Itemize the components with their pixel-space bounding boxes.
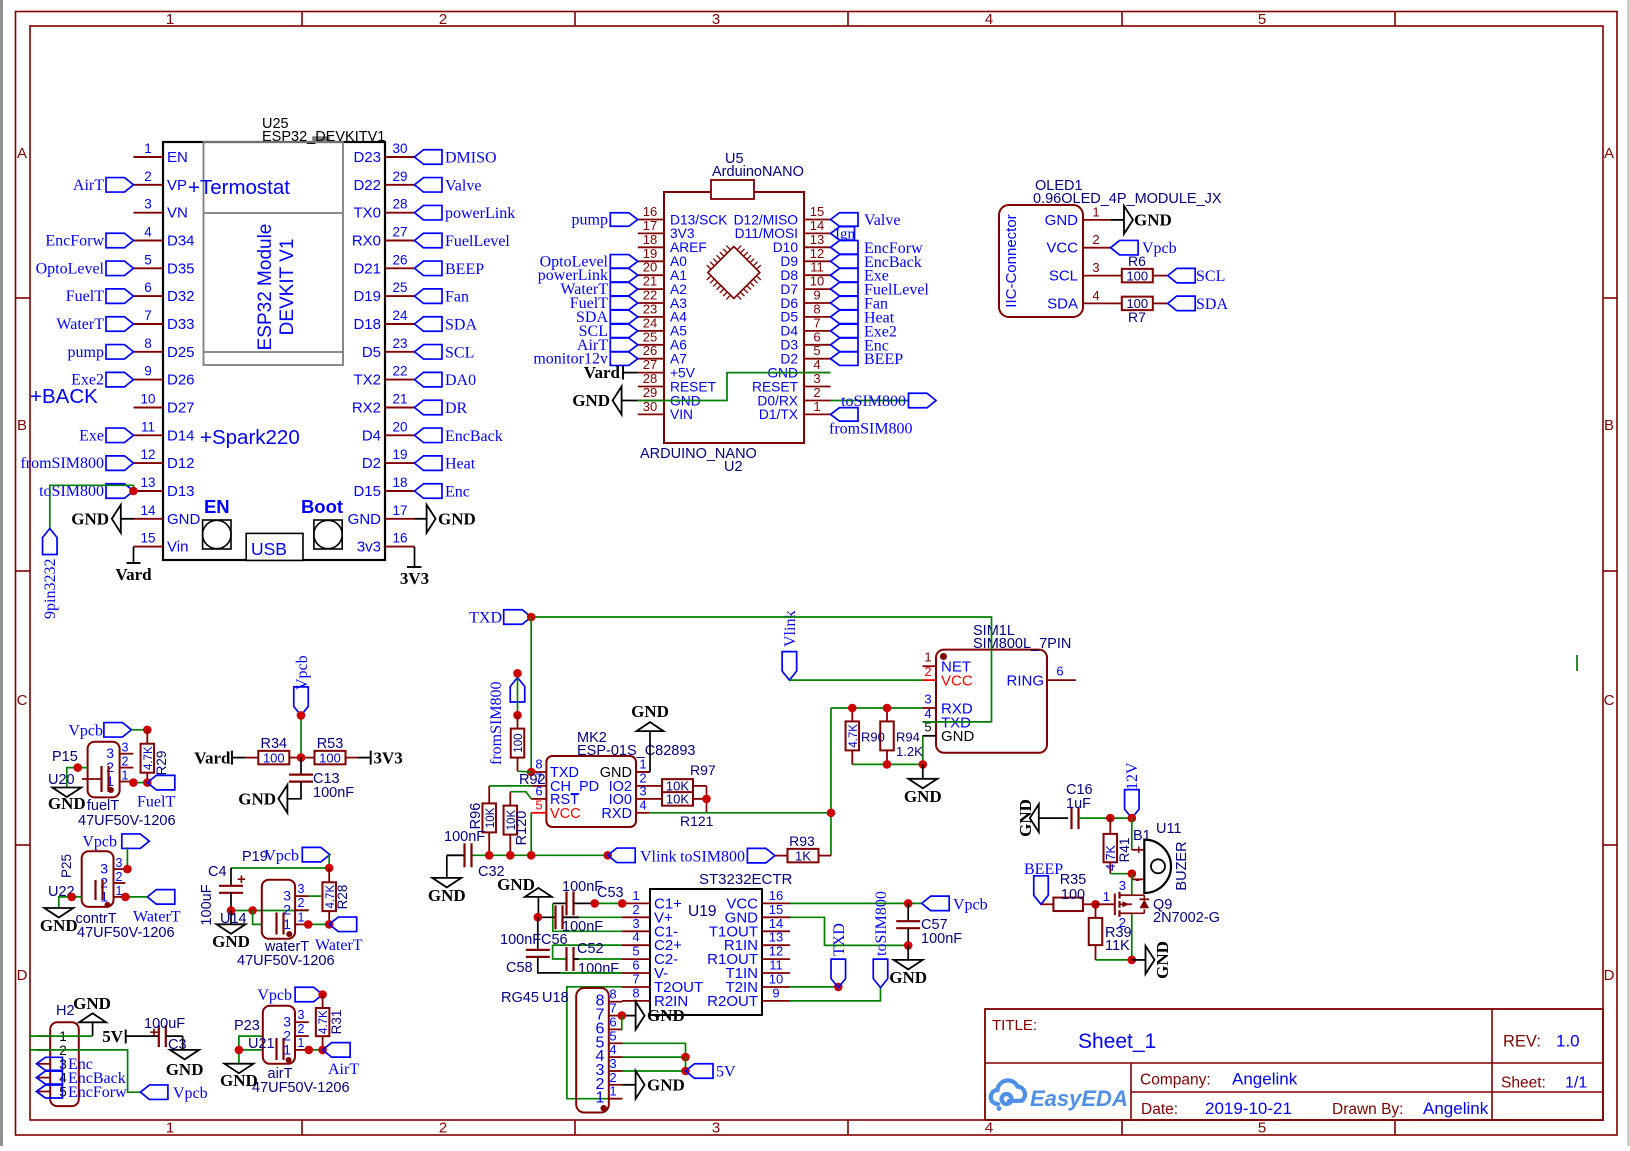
svg-text:Company:: Company:	[1140, 1072, 1211, 1089]
U25 pin 24 D18	[353, 308, 414, 333]
svg-text:WaterT: WaterT	[56, 316, 104, 333]
svg-text:1uF: 1uF	[1066, 796, 1091, 812]
P15 pin 3	[106, 741, 133, 762]
svg-text:5: 5	[609, 1028, 616, 1043]
capacitor C56 100nF	[538, 905, 622, 935]
svg-text:AREF: AREF	[670, 240, 707, 255]
svg-text:DMISO: DMISO	[445, 150, 497, 167]
svg-text:C: C	[1604, 692, 1615, 709]
svg-text:FuelT: FuelT	[137, 794, 175, 811]
junction at MK2 pin8	[527, 768, 536, 777]
svg-text:100: 100	[1061, 887, 1085, 903]
svg-text:A2: A2	[670, 282, 687, 297]
ground at OLED1 pin 1	[1111, 206, 1172, 234]
U19 pin 4 C2+	[622, 930, 682, 955]
svg-text:EncBack: EncBack	[445, 428, 503, 445]
svg-text:GND: GND	[572, 391, 610, 410]
U14 pin 2	[283, 896, 309, 918]
svg-text:BEEP: BEEP	[1024, 861, 1063, 878]
svg-text:D4: D4	[780, 324, 798, 339]
svg-text:Vpcb: Vpcb	[1142, 240, 1177, 257]
svg-text:100nF: 100nF	[444, 829, 485, 845]
connector P19/U14 body	[262, 880, 295, 939]
connector H2 body	[50, 1003, 79, 1106]
svg-text:100: 100	[319, 750, 341, 765]
svg-text:SDA: SDA	[1196, 296, 1228, 313]
U19 pin 14 T1OUT	[709, 916, 790, 941]
net flag EncBack (U5 pin 12)	[831, 254, 922, 271]
U25 pin 12 D12	[134, 447, 195, 472]
svg-text:100uF: 100uF	[144, 1016, 185, 1032]
U5 pin 1 D1/TX	[759, 399, 831, 422]
junction P15 pin1	[129, 778, 138, 787]
net flag pump (U5 pin 16)	[572, 212, 638, 229]
capacitor C57 100nF	[896, 903, 962, 947]
svg-text:16: 16	[392, 531, 407, 546]
svg-text:Fan: Fan	[445, 289, 469, 306]
svg-text:A7: A7	[670, 352, 687, 367]
U5 pin 13 D10	[773, 232, 831, 255]
U5 pin 24 A5	[638, 315, 687, 338]
net flag toSIM800 to R93	[680, 848, 775, 865]
OLED1 pin 4 SDA	[1047, 288, 1110, 313]
svg-text:9pin3232: 9pin3232	[42, 559, 59, 619]
svg-text:D23: D23	[353, 149, 381, 166]
svg-text:1.2K: 1.2K	[896, 744, 923, 759]
net flag AirT (U21)	[323, 1043, 360, 1078]
svg-text:4: 4	[985, 11, 993, 28]
svg-text:SCL: SCL	[1049, 268, 1078, 285]
U19 pin 15 GND	[725, 902, 790, 927]
svg-text:DR: DR	[445, 400, 468, 417]
U19 pin 12 R1OUT	[707, 944, 790, 969]
U25 pin 1 EN	[134, 141, 188, 166]
svg-text:R35: R35	[1060, 872, 1087, 888]
capacitor airT 47UF50V-1206	[252, 1038, 350, 1096]
svg-text:R41: R41	[1117, 838, 1132, 863]
resistor R92 100	[511, 715, 546, 788]
svg-text:22: 22	[643, 288, 657, 303]
net flag monitor12v (U5 pin 26)	[533, 351, 637, 368]
MK2 pin 7 CH_PD	[531, 770, 599, 795]
U25 pin 25 D19	[353, 280, 414, 305]
net flag WaterT (P25)	[133, 890, 181, 926]
U5 pin 5 D2	[780, 343, 830, 366]
U19 pin 6 V-	[622, 958, 668, 983]
svg-text:6: 6	[609, 1014, 616, 1029]
svg-text:RX2: RX2	[352, 400, 381, 417]
svg-text:SDA: SDA	[445, 317, 477, 334]
ground at U5 pin 29	[572, 387, 638, 415]
net flag Valve (U25 pin 29)	[415, 177, 482, 194]
svg-text:3v3: 3v3	[357, 539, 381, 556]
svg-text:WaterT: WaterT	[315, 937, 363, 954]
U19 pin 2 V+	[622, 902, 673, 927]
svg-text:R94: R94	[896, 730, 920, 745]
U5 pin 16 D13/SCK	[638, 204, 729, 227]
resistor R121 10K	[650, 792, 714, 829]
IC U25 ESP32_DEVKITV1 body	[163, 116, 385, 560]
svg-text:1: 1	[609, 1084, 616, 1099]
svg-text:3: 3	[1092, 260, 1099, 275]
svg-text:100: 100	[263, 750, 285, 765]
svg-text:GND: GND	[220, 1071, 258, 1090]
svg-text:GND: GND	[428, 886, 466, 905]
net flag Fan (U5 pin 9)	[831, 296, 889, 313]
U18 pin 7	[596, 1001, 623, 1024]
svg-text:D6: D6	[780, 296, 798, 311]
svg-text:Sheet_1: Sheet_1	[1078, 1030, 1156, 1053]
svg-text:2019-10-21: 2019-10-21	[1205, 1099, 1292, 1118]
svg-text:ESP32_DEVKITV1: ESP32_DEVKITV1	[262, 129, 385, 145]
svg-text:C4: C4	[208, 864, 227, 880]
net flag WaterT (U5 pin 21)	[560, 281, 637, 298]
svg-text:U11: U11	[1156, 821, 1182, 837]
wire U14 pin1 row left	[253, 911, 262, 925]
U25 pin 3 VN	[134, 197, 188, 222]
svg-text:GND: GND	[348, 511, 382, 528]
ground above U19 caps	[497, 875, 552, 917]
U19 pin 13 R1IN	[724, 930, 790, 955]
U19 pin 5 C2-	[622, 944, 678, 969]
svg-text:fuelT: fuelT	[87, 798, 119, 814]
svg-text:Angelink: Angelink	[1423, 1099, 1489, 1118]
net flag 5V (U18)	[686, 1064, 737, 1081]
MK2 pin 8 TXD	[531, 757, 579, 782]
svg-text:4.7K: 4.7K	[1104, 844, 1118, 870]
svg-text:2: 2	[122, 755, 129, 769]
svg-text:3V3: 3V3	[670, 226, 695, 241]
svg-text:D35: D35	[167, 260, 195, 277]
svg-text:D8: D8	[780, 268, 798, 283]
net flag Heat (U5 pin 8)	[831, 309, 895, 326]
net flag FuelT (U25 pin 6)	[66, 288, 134, 305]
svg-text:47UF50V-1206: 47UF50V-1206	[252, 1080, 350, 1096]
svg-text:16: 16	[769, 888, 783, 903]
net flag DMISO (U25 pin 30)	[415, 150, 497, 167]
net flag AirT (U5 pin 25)	[577, 337, 638, 354]
svg-text:100: 100	[513, 734, 525, 753]
svg-text:ArduinoNANO: ArduinoNANO	[712, 164, 804, 180]
svg-text:19: 19	[392, 447, 407, 462]
U19 pin 8 R2IN	[622, 985, 688, 1010]
svg-text:D27: D27	[167, 400, 195, 417]
junction dots fromSIM800	[513, 669, 522, 678]
power flag 5V (C3)	[102, 1027, 158, 1046]
U25 pin 21 RX2	[352, 392, 415, 417]
svg-text:16: 16	[643, 204, 657, 219]
svg-text:D7: D7	[780, 282, 798, 297]
svg-text:Vpcb: Vpcb	[953, 897, 988, 914]
U5 pin 9 D6	[780, 288, 830, 311]
net flag Exe2 (U25 pin 9)	[71, 372, 133, 389]
svg-text:3V3: 3V3	[374, 749, 403, 768]
H2 pin 2	[36, 1043, 66, 1058]
net flag Vpcb (H2)	[140, 1085, 207, 1102]
svg-text:1: 1	[639, 757, 646, 772]
svg-text:A4: A4	[670, 310, 687, 325]
net flag OptoLevel (U25 pin 5)	[36, 260, 134, 277]
svg-text:3: 3	[632, 916, 639, 931]
U18 pin 8	[596, 987, 623, 1010]
svg-text:15: 15	[140, 531, 155, 546]
junction dots Vlink rail	[485, 851, 494, 860]
H2 pin flags Enc/EncBack/EncForw	[36, 1056, 127, 1101]
svg-text:+Spark220: +Spark220	[200, 426, 300, 449]
net flag Vpcb (P23)	[257, 987, 322, 1004]
OLED1 pin 2 VCC	[1046, 232, 1110, 257]
svg-text:5: 5	[1258, 1120, 1266, 1137]
wire P25 pin1 to flag	[125, 896, 147, 898]
resistor R120 10K	[504, 792, 530, 856]
ground at U18 pin7	[636, 1002, 685, 1030]
net flag SCL (U5 pin 24)	[579, 323, 638, 340]
svg-text:3: 3	[144, 197, 152, 212]
U25 pin 22 TX2	[353, 364, 414, 389]
net flag FuelLevel (U5 pin 10)	[831, 282, 930, 299]
svg-text:U18: U18	[542, 990, 569, 1006]
svg-text:D11/MOSI: D11/MOSI	[735, 226, 798, 241]
svg-text:4.7K: 4.7K	[848, 724, 860, 748]
svg-text:EasyEDA: EasyEDA	[1030, 1086, 1128, 1111]
capacitor C32 100nF	[444, 829, 505, 880]
SIM1L pin 3 RXD	[923, 692, 973, 718]
ground at U21	[220, 1064, 258, 1090]
svg-text:C58: C58	[506, 960, 533, 976]
H2 pin 4	[36, 1071, 67, 1086]
junction at GND rail / C56	[534, 913, 543, 922]
net flag toSIM800 (U19 R2OUT)	[873, 891, 890, 988]
svg-text:GND: GND	[212, 932, 250, 951]
net flag Enc (U5 pin 6)	[831, 337, 889, 354]
MK2 pin 3 IO0	[609, 783, 650, 808]
svg-text:VCC: VCC	[941, 673, 973, 690]
net flag Vpcb (P25)	[82, 834, 149, 851]
svg-text:FuelT: FuelT	[66, 288, 104, 305]
U25 pin 2 VP	[134, 169, 188, 194]
U5 pin 23 A4	[638, 301, 687, 324]
IC U5 ArduinoNANO body	[640, 151, 804, 475]
svg-text:47UF50V-1206: 47UF50V-1206	[237, 953, 335, 969]
net flag Vlink (MK2)	[608, 848, 677, 865]
capacitor C4 100uF	[199, 864, 246, 926]
wire MK2 VCC down to Vlink rail	[530, 813, 532, 856]
svg-text:4: 4	[144, 225, 152, 240]
svg-text:8: 8	[609, 987, 616, 1002]
svg-text:D: D	[17, 967, 28, 984]
junction VCC/C57	[904, 899, 913, 908]
svg-text:R7: R7	[1128, 309, 1146, 325]
U25 pin 6 D32	[134, 280, 195, 305]
wire U21 pin1 to AirT	[309, 1049, 323, 1051]
capacitor contrT 47UF50V-1206 (U22)	[75, 880, 174, 941]
resistor R97 10K	[650, 762, 716, 794]
capacitor C52 100nF	[553, 941, 622, 977]
capacitor C16 1uF	[1066, 782, 1093, 829]
wire U21 left rail	[239, 1036, 262, 1050]
svg-text:2: 2	[298, 1022, 305, 1036]
MK2 pin 4 RXD	[601, 797, 649, 822]
svg-text:R29: R29	[154, 751, 169, 776]
P25 pin 2	[100, 870, 125, 891]
svg-text:10K: 10K	[485, 807, 497, 828]
svg-text:1.0: 1.0	[1556, 1032, 1580, 1051]
net flag TXD (left)	[469, 610, 531, 627]
U19 pin 9 R2OUT	[707, 985, 790, 1010]
net flag DR (U25 pin 21)	[415, 400, 468, 417]
svg-text:100: 100	[1126, 268, 1148, 283]
IC MK2 ESP-01S body	[546, 730, 695, 827]
wire SIM1L pin5 to GND	[922, 736, 924, 765]
wire MK2 RXD to SIM RXD net	[650, 812, 831, 814]
capacitor C58 100nF	[500, 917, 622, 976]
wire R39 to GND rail	[1096, 959, 1132, 961]
wire buzzer + pin	[1131, 818, 1133, 850]
svg-text:Vpcb: Vpcb	[68, 722, 103, 739]
svg-text:P19: P19	[242, 849, 268, 865]
svg-text:ESP32 Module: ESP32 Module	[255, 224, 276, 351]
svg-text:C: C	[17, 692, 28, 709]
MK2 pin 1 GND	[600, 757, 650, 782]
junction at TXD flag	[527, 613, 536, 622]
svg-text:RXD: RXD	[601, 806, 632, 822]
svg-text:1: 1	[632, 888, 639, 903]
buzzer U11 BUZER	[1144, 821, 1190, 893]
SIM1L pin 5 GND	[923, 720, 975, 746]
junction 5V node a	[681, 1053, 690, 1062]
svg-text:GND: GND	[889, 968, 927, 987]
svg-text:RX0: RX0	[352, 233, 381, 250]
svg-text:TITLE:: TITLE:	[992, 1017, 1037, 1034]
connector U18 RG45 body	[501, 988, 609, 1113]
net flag EncBack (U25 pin 20)	[415, 428, 503, 445]
net flag Valve (U5 pin 15)	[831, 212, 901, 229]
svg-text:Vpcb: Vpcb	[294, 655, 311, 690]
net flag fromSIM800 (U25 pin 12)	[20, 455, 133, 472]
svg-text:30: 30	[392, 141, 407, 156]
wire fromSIM800 stem	[517, 673, 519, 715]
svg-text:D5: D5	[362, 344, 381, 361]
U5 pin 8 D5	[780, 301, 830, 324]
svg-text:3: 3	[298, 882, 305, 896]
svg-text:27: 27	[643, 357, 657, 372]
svg-text:B: B	[1604, 417, 1614, 434]
capacitor waterT 47UF50V-1206	[237, 913, 335, 970]
svg-text:D12: D12	[167, 455, 195, 472]
svg-text:4: 4	[639, 797, 646, 812]
junction P25 pin3	[123, 865, 132, 874]
net flag Vlink (SIM1L VCC)	[782, 611, 799, 681]
resistor R28 4.7K	[322, 868, 350, 924]
svg-text:D13: D13	[167, 483, 195, 500]
svg-text:VN: VN	[167, 205, 188, 222]
svg-text:D15: D15	[353, 483, 381, 500]
wire U14 pin3 to R28	[309, 895, 321, 897]
net flag pump (U25 pin 8)	[68, 344, 134, 361]
svg-text:A: A	[1604, 145, 1614, 162]
U25 pin 20 D4	[362, 419, 415, 444]
wire P15 pin1 row	[133, 782, 147, 784]
junction U14 pin1	[304, 920, 313, 929]
svg-text:REV:: REV:	[1503, 1033, 1541, 1051]
svg-text:toSIM800: toSIM800	[873, 891, 890, 956]
wire U21 pin2 row left to GND	[239, 1050, 262, 1063]
svg-text:1: 1	[166, 11, 174, 28]
MK2 pin 6 RST	[531, 783, 579, 808]
svg-text:25: 25	[643, 329, 657, 344]
svg-text:6: 6	[1056, 664, 1063, 679]
junction at Vpcb flag	[297, 711, 306, 720]
net flag DA0 (U25 pin 22)	[415, 372, 477, 389]
U5 pin 25 A6	[638, 329, 687, 352]
U5 pin 19 A0	[638, 246, 687, 269]
svg-text:18: 18	[392, 475, 407, 490]
svg-text:D4: D4	[362, 427, 381, 444]
svg-text:3: 3	[609, 1056, 616, 1071]
U25 pin 18 D15	[353, 475, 414, 500]
pin-1 marker P15	[108, 787, 114, 793]
U5 pin 17 3V3	[638, 218, 695, 241]
wire C4 to U14 row	[231, 910, 308, 912]
svg-text:5V: 5V	[102, 1027, 124, 1046]
svg-text:100nF: 100nF	[313, 785, 354, 801]
net flag Fan (U25 pin 25)	[415, 289, 470, 306]
U5 pin 21 A2	[638, 274, 687, 297]
svg-text:12V: 12V	[1124, 762, 1141, 790]
svg-text:26: 26	[392, 252, 407, 267]
pin-1 marker U21	[286, 1057, 292, 1063]
junction U18 pin7	[618, 1011, 627, 1020]
label B1 and +/-	[1133, 828, 1151, 888]
svg-text:20: 20	[643, 260, 657, 275]
net flag toSIM800 (U5 pin 2)	[841, 393, 936, 410]
wire R96 to CH_PD	[489, 785, 531, 787]
svg-text:13: 13	[140, 475, 155, 490]
svg-text:4: 4	[609, 1042, 616, 1057]
svg-text:23: 23	[643, 301, 657, 316]
svg-text:RESET: RESET	[752, 379, 799, 394]
svg-text:A3: A3	[670, 296, 687, 311]
U25 pin 8 D25	[134, 336, 195, 361]
svg-text:TX2: TX2	[353, 372, 381, 389]
resistor R90 4.7K	[846, 708, 860, 764]
svg-text:2: 2	[439, 1120, 447, 1137]
svg-text:Date:: Date:	[1141, 1101, 1178, 1118]
wire C53 to C1-	[553, 903, 622, 931]
U25 pin 15 Vin	[134, 531, 189, 556]
svg-text:4: 4	[985, 1120, 993, 1137]
net flag BEEP	[1024, 861, 1063, 904]
U5 pin 2 D0/RX	[757, 385, 830, 408]
svg-text:28: 28	[392, 197, 407, 212]
U5 pin 10 D7	[780, 274, 830, 297]
svg-text:GND: GND	[631, 702, 669, 721]
svg-text:FuelLevel: FuelLevel	[445, 233, 510, 250]
wire Vpcb to R34/R53 node	[300, 715, 302, 757]
power flag 3V3 (R53)	[358, 749, 403, 768]
H2 pin 3	[36, 1057, 66, 1072]
svg-text:6: 6	[144, 280, 152, 295]
junction at D13 flag	[129, 487, 138, 496]
U21 pin 3	[283, 1008, 309, 1029]
USB connector box	[246, 533, 303, 560]
svg-text:23: 23	[392, 336, 407, 351]
wire H2 pin1 to GND	[30, 1035, 93, 1037]
svg-text:+: +	[237, 871, 246, 888]
junction P15 gnd	[73, 763, 82, 772]
U5 pin 20 A1	[638, 260, 687, 283]
svg-text:Heat: Heat	[445, 456, 476, 473]
